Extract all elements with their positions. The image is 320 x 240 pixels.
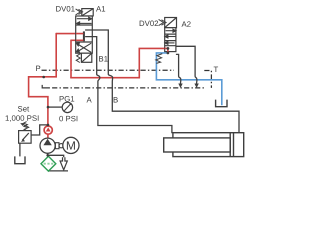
label 1,000 PSI (6, 115, 39, 121)
check valve (red) at pump outlet (44, 126, 52, 134)
relief valve spring (24, 122, 28, 131)
valve DV02 body (165, 28, 176, 52)
label T (214, 67, 218, 72)
valve DV02 spring top (159, 19, 167, 25)
label A1 (96, 6, 105, 11)
arrow hollow return arrow with stem (60, 157, 67, 170)
wire DV02 drain 2 (hops over blue line) (176, 46, 197, 84)
valve DV02 position arrows (165, 29, 176, 44)
coupling pump-motor (55, 143, 63, 149)
label B (114, 97, 118, 102)
valve DV02 solenoid (165, 18, 177, 28)
label DV02 (140, 21, 158, 27)
node T rail bracket to label (204, 71, 211, 88)
wire filter bottom return (48, 170, 68, 172)
label A2 (182, 21, 191, 26)
valve DV01 right port stubs (85, 30, 92, 37)
wire red DV02 P entry (over valve fill) (165, 48, 168, 53)
junction dots (42, 76, 45, 79)
wire red DV01 P port feed (56, 33, 83, 35)
wire red pump to DV01 P riser (29, 33, 57, 126)
label P (36, 66, 40, 71)
wire gauge tap (48, 106, 62, 108)
arrow drain 1 to T rail (178, 84, 182, 89)
valve DV01 body (76, 16, 93, 53)
label PG1 (60, 96, 75, 102)
valve DV01 blocked centre bar (83, 31, 85, 41)
motor M1 (63, 137, 79, 153)
wire red main P line to DV02 (70, 48, 168, 77)
valve DV01 position arrows (77, 17, 92, 25)
label A (87, 97, 92, 102)
relief valve RV1 (19, 131, 32, 144)
label DV01 (56, 6, 74, 12)
wire black B1 work line to cylinder cap end (hops over red P line) (91, 30, 239, 133)
wire red DV01 port feeds (over valve fill) (76, 34, 83, 41)
arrow drain 2 to T rail (194, 84, 198, 89)
wire tank branch with arrow (48, 155, 64, 158)
wire red stub inside DV02 (167, 48, 169, 53)
node P rail (dash-dot pressure reference line) (42, 69, 175, 71)
wire red check valve to pump (47, 134, 49, 139)
wire relief valve tap (31, 125, 48, 135)
valve DV01 spring bottom (76, 54, 80, 63)
label B1 (99, 56, 108, 61)
cylinder rod (164, 138, 231, 152)
wire relief valve drain to tank (19, 143, 21, 156)
node T rail (dash-dot tank reference line) (42, 85, 48, 88)
pump P1 (40, 138, 55, 153)
wire red DV01 second port feed (71, 39, 83, 41)
label Set (18, 106, 29, 112)
label M (67, 141, 75, 149)
tank symbol left (relief drain) (15, 156, 25, 163)
wire black A1 work line to cylinder rod end (hops over red P line) (91, 37, 172, 134)
wire blue DV02 tank return to reservoir (156, 53, 221, 105)
cylinder barrel (173, 133, 244, 157)
cylinder piston (230, 133, 233, 157)
gauge PG1 (62, 102, 72, 112)
valve DV01 spring top (76, 9, 83, 15)
filter (green) (41, 156, 56, 171)
valve DV01 solenoid bottom (81, 53, 91, 62)
valve DV01 crossed position (76, 43, 91, 53)
tank symbol right (system return) (216, 100, 227, 107)
valve DV01 solenoid top (82, 9, 93, 16)
relief valve adjust arrow (23, 125, 29, 128)
wire DV02 drain 1 (hops over blue line) (176, 54, 181, 84)
wire pump to filter (47, 153, 49, 156)
label 0 PSI (59, 116, 77, 122)
valve DV02 spring bottom (156, 54, 163, 64)
wire red DV01 second port riser (70, 40, 72, 78)
junction dot DV02 P (167, 47, 170, 50)
